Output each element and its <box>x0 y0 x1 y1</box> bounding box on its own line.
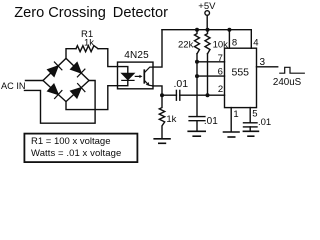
diode D4 bottom-right (anode bottom, cathode right) <box>71 84 85 98</box>
label pin 1 <box>233 109 238 120</box>
title <box>14 5 168 21</box>
opto LED anode internal wire <box>118 67 128 74</box>
ground below 1k <box>154 139 170 144</box>
wire pin4 drop <box>250 30 252 49</box>
label pin 6 <box>218 67 223 78</box>
wire bridge bottom vertex to opto LED cathode <box>66 86 118 110</box>
wire pin6 <box>197 75 225 77</box>
resistor R2 22k vertical <box>195 30 200 54</box>
svg-text:3: 3 <box>260 57 266 68</box>
opto light arrow <box>135 75 142 78</box>
junction dot pin6 node <box>195 74 199 78</box>
label pin 3 <box>260 57 266 68</box>
svg-text:1k: 1k <box>84 38 94 49</box>
opto-coupler U1 4N25 box <box>118 62 154 89</box>
svg-text:555: 555 <box>232 67 250 79</box>
wire R1 right to opto LED anode <box>98 49 118 67</box>
junction dot rail at pin8 <box>227 28 231 32</box>
label 1k <box>166 114 176 125</box>
power +5V terminal <box>198 1 216 30</box>
svg-text:1: 1 <box>233 109 238 120</box>
capacitor C2 .01 timing <box>189 117 205 121</box>
IC U2 555 box <box>225 48 257 107</box>
label C3 .01 <box>258 117 271 128</box>
label 22k <box>178 40 194 51</box>
svg-text:4N25: 4N25 <box>124 50 149 61</box>
ground below C3 <box>243 131 258 136</box>
svg-text:Zero Crossing Detector: Zero Crossing Detector <box>14 5 168 21</box>
capacitor C1 .01 series <box>176 90 179 100</box>
opto phototransistor base bar <box>143 70 145 83</box>
wire pin1 to ground <box>230 108 232 132</box>
svg-text:4: 4 <box>253 38 258 49</box>
wire +5V rail <box>162 29 251 31</box>
wire C3 to ground <box>249 127 251 131</box>
svg-text:.01: .01 <box>258 117 271 128</box>
wire emitter out down to junction <box>153 86 162 95</box>
opto phototransistor collector <box>144 67 153 73</box>
bridge rectifier diamond edges <box>43 58 89 101</box>
label C1 .01 <box>174 78 189 90</box>
svg-text:240uS: 240uS <box>273 77 302 88</box>
svg-text:7: 7 <box>218 53 223 64</box>
opto phototransistor emitter with arrow <box>144 80 153 86</box>
label pin 2 <box>218 84 223 95</box>
svg-text:5: 5 <box>252 109 257 120</box>
wire 10k bottom to pin2 line <box>207 54 209 95</box>
svg-text:Watts = .01 x voltage: Watts = .01 x voltage <box>31 148 121 159</box>
svg-text:R1 = 100 x voltage: R1 = 100 x voltage <box>31 136 110 147</box>
label 240uS <box>273 77 302 88</box>
ground below C2 <box>188 131 205 136</box>
wire pin7 <box>197 61 225 63</box>
wire 22k bottom to pins 6-7 and timing cap <box>196 54 198 117</box>
svg-text:1k: 1k <box>166 114 176 125</box>
label C2 .01 <box>204 116 218 127</box>
opto LED triangle and cathode bar <box>122 73 134 80</box>
label 555 <box>232 67 250 79</box>
junction dot 10k at pin2 <box>206 93 210 97</box>
diode D2 top-right (anode top, cathode right vertex) <box>71 63 85 77</box>
wire collector out to +5V rail <box>153 30 162 67</box>
wire pin5 to C3 <box>249 108 251 123</box>
wire AC top lead to bridge left vertex <box>26 80 44 82</box>
label 4N25 <box>124 50 149 61</box>
svg-text:2: 2 <box>218 84 223 95</box>
diode D1 top-left (anode left vertex, cathode top) <box>48 62 62 76</box>
label pin 7 <box>218 53 223 64</box>
label 10k <box>213 40 229 51</box>
label R1 <box>81 29 93 40</box>
wire pin2 trigger line <box>162 94 225 96</box>
label R1 value 1k <box>84 38 94 49</box>
wire pin8 drop <box>228 30 230 49</box>
svg-text:8: 8 <box>232 38 237 49</box>
note box formulas <box>24 134 137 163</box>
svg-text:.01: .01 <box>174 78 189 90</box>
junction dot rail at 10k <box>206 28 210 32</box>
capacitor C3 .01 on pin5 <box>244 123 258 127</box>
node AC IN label <box>1 81 26 91</box>
junction dot rail at 22k <box>195 28 199 32</box>
label pin 4 <box>253 38 258 49</box>
wire C2 to ground <box>196 121 198 131</box>
svg-text:AC IN: AC IN <box>1 81 26 91</box>
svg-text:22k: 22k <box>178 40 194 51</box>
wire pin3 output <box>257 66 278 68</box>
junction dot emitter node <box>160 93 164 97</box>
wire AC bottom lead around to bridge right vertex <box>25 81 96 124</box>
resistor R1 zigzag <box>76 46 98 52</box>
resistor R4 1k vertical <box>159 95 164 138</box>
svg-text:.01: .01 <box>204 116 218 127</box>
junction dot pin7 node <box>195 60 199 64</box>
resistor R3 10k vertical <box>205 30 210 54</box>
label pin 5 <box>252 109 257 120</box>
diode D3 bottom-left (anode left, cathode bottom) <box>48 84 62 98</box>
label pin 8 <box>232 38 237 49</box>
ground below pin1 <box>224 132 240 137</box>
output pulse waveform <box>280 67 305 73</box>
wire bridge top vertex up to R1 <box>66 49 76 59</box>
svg-text:6: 6 <box>218 67 223 78</box>
opto LED cathode internal wire <box>118 80 128 85</box>
